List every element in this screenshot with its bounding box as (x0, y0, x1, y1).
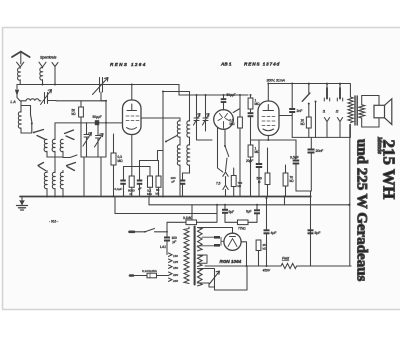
svg-text:0,3: 0,3 (118, 155, 123, 159)
svg-text:RENS 1374d: RENS 1374d (244, 62, 280, 67)
wire: mid bus y213 (115, 205, 217, 214)
capacitor 4uF (266, 198, 268, 229)
svg-text:8μF: 8μF (315, 231, 321, 235)
tube RGN1064 (224, 233, 241, 250)
resistor 25k (256, 240, 261, 251)
output transformer primary (zigzag) (348, 97, 353, 122)
svg-text:20μF: 20μF (246, 159, 253, 163)
row1 bottom link (47, 155, 77, 160)
resistor 70k (285, 165, 287, 173)
svg-text:100: 100 (172, 236, 178, 240)
transformer core lines (194, 227, 196, 285)
socket l2 plug (339, 84, 341, 88)
svg-text:215 WH: 215 WH (380, 140, 399, 200)
hum potentiometer (198, 269, 215, 288)
node dot osc (105, 100, 107, 102)
AB1 cathode switch (218, 127, 223, 172)
switch row1 left (34, 130, 46, 140)
tube RENS1264 top lead (131, 85, 133, 101)
IF transformer coil A1 (177, 121, 180, 145)
svg-text:50μμF: 50μμF (227, 93, 236, 97)
capacitor under tube 2 (137, 180, 143, 182)
svg-text:kΩ: kΩ (301, 122, 306, 126)
row2 tops (47, 160, 63, 173)
tube RENS1264 (123, 100, 142, 135)
resistor 0,5M diode load (233, 95, 240, 117)
tube AB1 (214, 110, 234, 130)
resistor at AB1 bottom (231, 176, 236, 187)
svg-text:125: 125 (173, 260, 178, 264)
capacitor 100pF mains (166, 232, 168, 237)
wire: IF top link (163, 92, 190, 122)
coil row2 a (44, 172, 47, 196)
tube RENS1374d (258, 101, 279, 136)
sperrkreis coil 1 arrows (17, 62, 24, 67)
coil row1 a (44, 139, 47, 157)
RGN plate lead (241, 242, 246, 266)
socket l1 lower (324, 118, 329, 138)
antenna tap arrow (52, 63, 58, 85)
svg-text:MΩ: MΩ (118, 159, 124, 163)
svg-text:2nF: 2nF (297, 109, 303, 113)
field coil zigzag (281, 263, 297, 268)
IF transformer coil B2 (183, 145, 190, 173)
secondary winding bottom (198, 269, 203, 286)
switch row2 right (67, 163, 76, 171)
svg-text:220: 220 (172, 273, 178, 277)
capacitor 8uF (309, 195, 311, 197)
coil row2 c (60, 172, 63, 196)
tube AB1 top lead (223, 95, 225, 110)
wire: B+ rail 450V (205, 265, 351, 267)
wire bus to 2nF node (291, 84, 293, 138)
bank bottom dots (46, 196, 48, 198)
svg-text:RENS 1264: RENS 1264 (110, 62, 147, 67)
dots on ground bus (283, 195, 285, 197)
svg-text:LA1: LA1 (160, 245, 166, 249)
heater wires to RGN (198, 228, 233, 234)
mid secondary leads (198, 255, 208, 263)
svg-text:240: 240 (172, 279, 178, 283)
trimmer cap 1 in box (84, 123, 89, 157)
coil row1 b (52, 139, 55, 157)
speaker wires (362, 96, 379, 128)
svg-text:AB 1: AB 1 (220, 62, 232, 67)
cathode node wire (251, 139, 297, 141)
resistor 0,2M (148, 176, 153, 187)
sperrkreis coil 2 arrows (39, 62, 46, 67)
svg-text:MΩ: MΩ (230, 122, 236, 126)
tube cathode lead (267, 136, 269, 141)
svg-text:7,5: 7,5 (216, 182, 221, 186)
svg-text:l1: l1 (323, 110, 326, 114)
antenna coupling coil LA (horizontal) (17, 98, 41, 101)
wire: top anode bus (right segment 300V) (269, 83, 350, 85)
capacitor 0,5uF (295, 140, 297, 159)
junction dot y204 (348, 204, 350, 206)
svg-text:150: 150 (173, 266, 178, 270)
svg-text:0,1μF: 0,1μF (115, 187, 123, 191)
capacitor 20nF (308, 149, 315, 151)
wire: grid line y123 to tube (55, 122, 123, 124)
svg-text:Sperrkreis: Sperrkreis (40, 56, 57, 60)
capacitors at RGN filament (198, 237, 215, 246)
secondary winding heater RGN (198, 228, 203, 251)
resistor 0,3M left of tube (113, 134, 115, 153)
wire to oscillator box (56, 101, 106, 123)
svg-text:pF: pF (172, 180, 176, 184)
plate wire with 2nF cap (279, 115, 292, 117)
wire: top anode bus (left segment) (17, 85, 248, 96)
speaker (374, 105, 385, 118)
coil row2 b (52, 172, 55, 196)
trimmer cap 3 (194, 95, 212, 140)
capacitor 5uF (224, 205, 226, 209)
grid chain resistor 2M (250, 95, 252, 98)
svg-text:l2: l2 (336, 110, 339, 114)
svg-text:kΩ: kΩ (238, 184, 242, 188)
tuning gang capacitor (osc) (100, 78, 107, 101)
antenna (12, 52, 30, 57)
tube RENS1374d top lead (267, 84, 269, 102)
left bank: antenna coil (21, 101, 31, 112)
svg-text:4μF: 4μF (271, 231, 277, 235)
wire y191 (296, 191, 311, 197)
wire x192 (191, 205, 193, 220)
secondary winding mid (198, 255, 203, 266)
wire: right vertical x310 ground-to-rail (310, 197, 312, 267)
svg-text:Feld: Feld (282, 257, 290, 261)
svg-text:μF: μF (173, 240, 177, 244)
transformer core (355, 96, 357, 125)
switch row1 right (65, 130, 75, 140)
resistor 10k (306, 117, 311, 128)
svg-text:L A: L A (11, 100, 17, 104)
wire y138 link (316, 136, 350, 138)
svg-text:- 916 -: - 916 - (49, 220, 58, 224)
svg-text:kΩ: kΩ (72, 112, 77, 116)
capacitor 0,1uF under tube (123, 167, 125, 180)
wire: drop x115 from ground bus (114, 197, 116, 214)
oscillator box wires (81, 123, 106, 157)
trimmer cap 2 in box (96, 123, 101, 157)
socket l2 lower (337, 118, 342, 138)
variable capacitor LA (45, 93, 57, 104)
output transformer secondary (359, 105, 365, 118)
resistor 6000 ohm cathode (129, 176, 134, 187)
svg-text:μF: μF (138, 187, 142, 191)
wire: link resistors top (140, 151, 164, 161)
sperrkreis coil 2 (40, 67, 43, 85)
svg-text:0,1A/0,05A: 0,1A/0,05A (142, 269, 157, 273)
svg-text:6μF: 6μF (246, 210, 252, 214)
junction to switch rows (21, 132, 32, 134)
grid coupling capacitor (250, 109, 252, 112)
svg-text:300V, 31mA: 300V, 31mA (267, 79, 286, 83)
IF transformer coil B1 (187, 121, 190, 145)
resistor 50k (158, 161, 160, 177)
wire: long vertical x163 (162, 92, 164, 197)
svg-text:5μF: 5μF (229, 210, 235, 214)
wire: drop to LA coil with arrow (16, 85, 18, 98)
center line of bank (54, 123, 56, 140)
svg-text:MΩ: MΩ (147, 192, 152, 196)
ground symbol (21, 197, 23, 205)
resistor 500 ohm (267, 148, 269, 173)
power transformer primary (184, 229, 189, 284)
trimmer cap 4 (203, 95, 208, 131)
mains plug upper (130, 231, 135, 234)
resistor 77k horizontal (225, 221, 238, 223)
svg-text:kΩ: kΩ (290, 179, 295, 183)
node line y137 (292, 137, 315, 148)
svg-text:0,5μF: 0,5μF (290, 156, 299, 160)
coil row1 c (60, 139, 63, 157)
svg-text:77kΩ: 77kΩ (238, 227, 246, 231)
wires from box bottom to ground (84, 157, 101, 197)
IF transformer coil A2 (177, 145, 180, 197)
svg-text:und 225 W Geradeaus: und 225 W Geradeaus (354, 139, 370, 282)
svg-text:RGN 1064: RGN 1064 (220, 259, 242, 264)
svg-text:110: 110 (173, 254, 178, 258)
voltage taps (169, 253, 179, 283)
capacitor 6uF (256, 205, 258, 210)
svg-text:450V: 450V (263, 269, 271, 273)
tone switch (308, 84, 310, 93)
svg-text:20nF: 20nF (316, 149, 324, 153)
resistor 1M (248, 145, 253, 157)
band switch at IF (166, 136, 177, 142)
wire: plate RENS1264 to IF coils (141, 118, 180, 121)
wire: drop x149 from ground bus (148, 197, 150, 205)
wire: mid bus y205 (149, 204, 349, 206)
wire: ground bus (20, 196, 311, 198)
band switch 1 (31, 106, 33, 132)
sperrkreis coil 1 (18, 67, 21, 85)
socket l1 plug (326, 84, 328, 88)
mains switch (145, 229, 155, 232)
switch row2 left (38, 163, 46, 171)
wire: right vertical x350 (350, 125, 351, 267)
wire: screen lead down (124, 135, 151, 177)
svg-text:50μμF: 50μμF (93, 115, 102, 119)
